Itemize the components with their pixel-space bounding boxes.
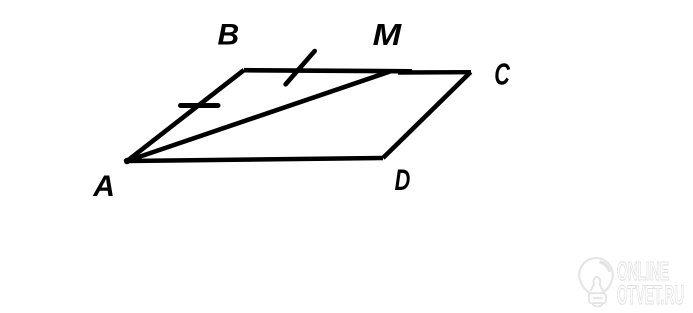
watermark lightbulb icon bbox=[579, 258, 613, 306]
wire side AB bbox=[127, 70, 244, 161]
svg-text:A: A bbox=[92, 170, 115, 203]
svg-text:D: D bbox=[395, 164, 411, 197]
wire side BC bbox=[244, 70, 412, 71]
node A dot bbox=[124, 158, 130, 164]
tick mark on AB bbox=[181, 103, 219, 108]
svg-text:M: M bbox=[373, 17, 403, 52]
wire side CD bbox=[383, 72, 471, 158]
svg-text:C: C bbox=[494, 57, 510, 92]
svg-text:B: B bbox=[218, 19, 240, 52]
tick mark on BM bbox=[286, 51, 315, 84]
wire segment AM bbox=[127, 72, 390, 162]
wire segment MC bbox=[398, 70, 471, 75]
svg-text:OTVET.RU: OTVET.RU bbox=[617, 280, 684, 310]
wire side DA bbox=[127, 158, 383, 161]
